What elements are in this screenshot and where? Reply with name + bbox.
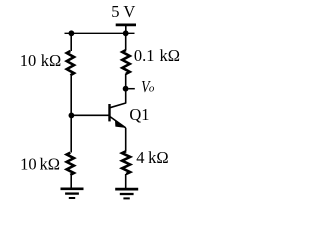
svg-text:kΩ: kΩ xyxy=(41,51,62,70)
svg-text:kΩ: kΩ xyxy=(148,148,169,167)
svg-text:4: 4 xyxy=(136,148,144,167)
svg-text:kΩ: kΩ xyxy=(160,46,181,65)
svg-text:o: o xyxy=(149,82,155,94)
svg-text:kΩ: kΩ xyxy=(40,155,61,174)
svg-text:Q1: Q1 xyxy=(129,105,149,124)
svg-text:0.1: 0.1 xyxy=(134,46,155,65)
svg-text:10: 10 xyxy=(20,51,37,70)
svg-text:5 V: 5 V xyxy=(111,2,135,21)
svg-text:10: 10 xyxy=(20,155,36,174)
